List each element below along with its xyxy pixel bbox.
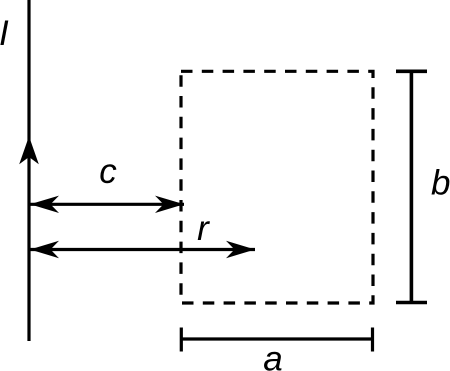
node left arrowhead of r arrow bbox=[30, 241, 59, 258]
wire (r dimension arrow shaft) bbox=[30, 248, 255, 251]
node right arrowhead of c arrow bbox=[155, 196, 184, 213]
svg-text:c: c bbox=[99, 152, 117, 191]
svg-text:I: I bbox=[0, 14, 9, 53]
svg-text:a: a bbox=[263, 340, 282, 371]
current direction arrowhead on wire bbox=[19, 136, 39, 164]
wire (c dimension arrow shaft) bbox=[30, 203, 184, 206]
wire (long straight current-carrying wire) bbox=[27, 0, 30, 341]
node right arrowhead of r arrow bbox=[226, 241, 255, 258]
node left arrowhead of c arrow bbox=[30, 196, 59, 213]
wire (b dimension bar) bbox=[410, 71, 414, 302]
node a left cap bbox=[180, 328, 183, 352]
node a right cap bbox=[371, 328, 374, 352]
node b bottom cap bbox=[396, 301, 427, 305]
svg-text:b: b bbox=[431, 164, 450, 203]
wire (a dimension bar) bbox=[181, 337, 372, 340]
node rectangular loop (dashed) bbox=[181, 71, 373, 303]
svg-text:r: r bbox=[197, 209, 210, 248]
node b top cap bbox=[396, 70, 427, 74]
